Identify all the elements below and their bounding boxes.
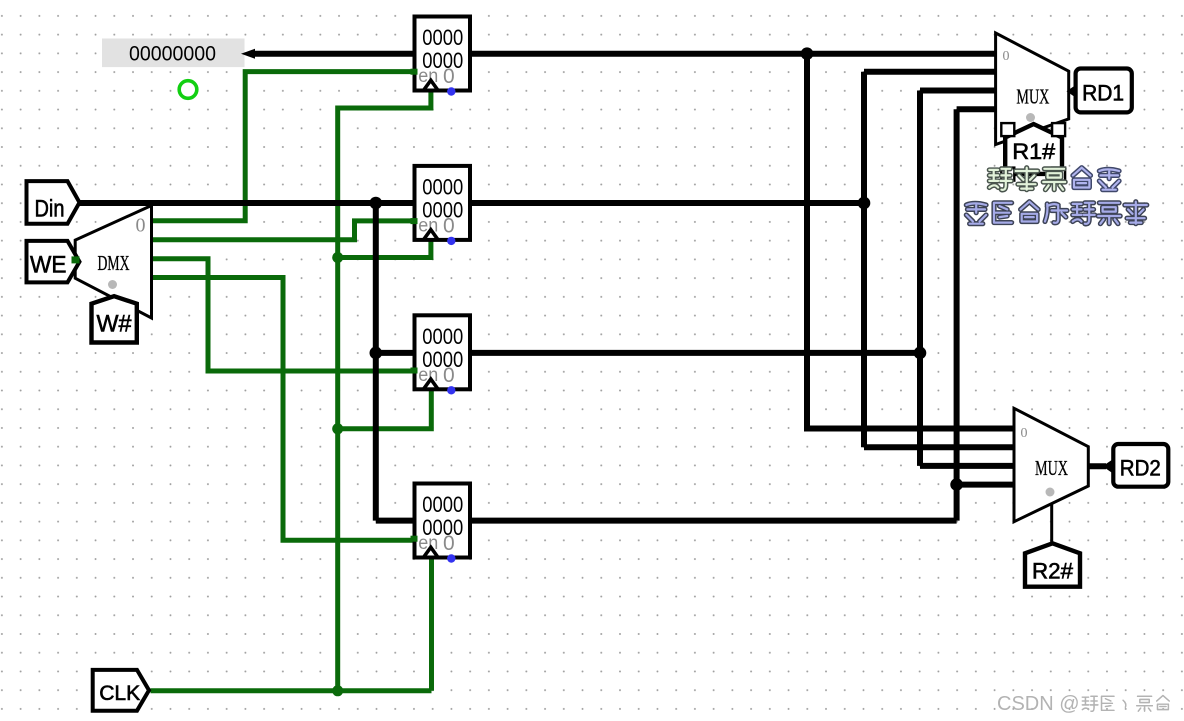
svg-text:0: 0 <box>136 215 146 237</box>
svg-text:0: 0 <box>443 364 455 387</box>
svg-text:0000: 0000 <box>422 492 463 517</box>
svg-text:CLK: CLK <box>99 682 140 705</box>
svg-text:0: 0 <box>443 532 455 555</box>
svg-text:RD1: RD1 <box>1082 80 1124 105</box>
svg-text:W#: W# <box>97 311 133 338</box>
svg-text:MUX: MUX <box>1016 85 1049 109</box>
svg-text:0000: 0000 <box>422 25 463 50</box>
svg-text:R1#: R1# <box>1012 139 1056 164</box>
svg-text:R2#: R2# <box>1032 558 1074 583</box>
svg-text:MUX: MUX <box>1035 456 1068 480</box>
svg-text:0: 0 <box>1003 49 1010 64</box>
svg-text:CSDN @: CSDN @ <box>997 693 1080 715</box>
svg-text:0: 0 <box>443 65 455 88</box>
svg-text:Din: Din <box>35 196 65 223</box>
svg-text:RD2: RD2 <box>1120 455 1161 480</box>
svg-text:0: 0 <box>443 215 455 238</box>
svg-text:0: 0 <box>1021 426 1028 441</box>
svg-text:00000000: 00000000 <box>129 43 216 66</box>
svg-text:DMX: DMX <box>98 251 130 275</box>
svg-text:0000: 0000 <box>422 175 463 200</box>
svg-text:0000: 0000 <box>422 324 463 349</box>
svg-text:WE: WE <box>30 251 67 278</box>
